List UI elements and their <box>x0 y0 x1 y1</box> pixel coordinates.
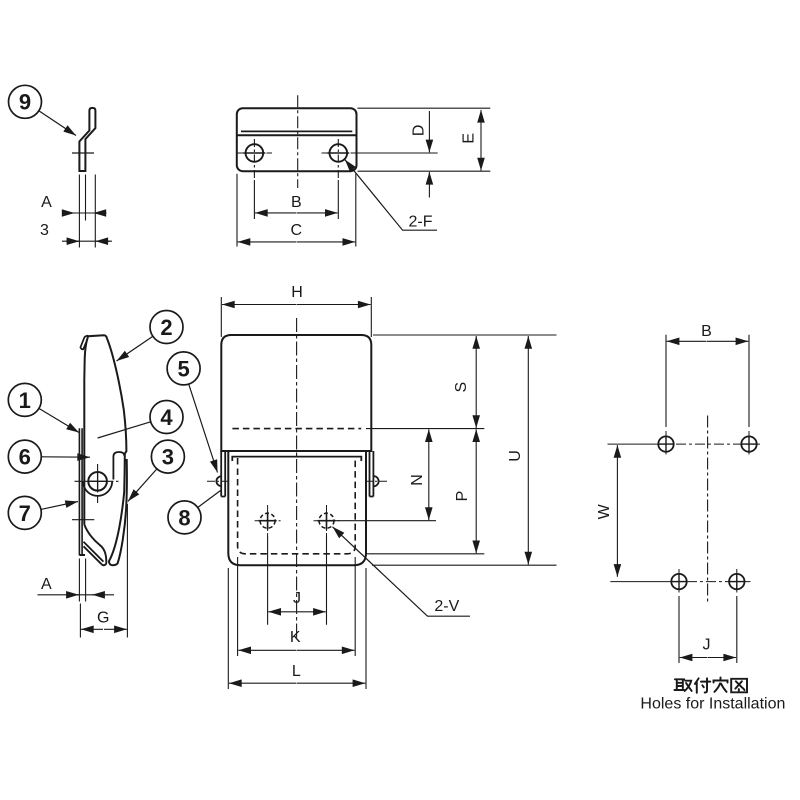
svg-text:W: W <box>596 503 613 519</box>
svg-text:N: N <box>409 474 426 486</box>
svg-text:8: 8 <box>178 505 190 530</box>
svg-text:H: H <box>291 284 303 301</box>
svg-text:L: L <box>292 663 301 680</box>
svg-text:6: 6 <box>19 445 31 470</box>
svg-text:G: G <box>97 609 109 626</box>
svg-text:4: 4 <box>160 405 173 430</box>
svg-text:9: 9 <box>19 90 31 115</box>
svg-text:1: 1 <box>19 388 31 413</box>
svg-text:E: E <box>460 133 477 144</box>
svg-text:2-V: 2-V <box>434 598 459 615</box>
svg-text:C: C <box>291 222 303 239</box>
svg-text:D: D <box>411 125 428 137</box>
svg-text:U: U <box>507 450 524 462</box>
svg-text:J: J <box>703 637 711 654</box>
svg-text:B: B <box>291 194 302 211</box>
svg-text:Holes for Installation: Holes for Installation <box>640 695 785 712</box>
svg-text:2-F: 2-F <box>409 214 433 231</box>
svg-text:A: A <box>41 576 52 593</box>
svg-text:J: J <box>293 590 301 607</box>
svg-text:7: 7 <box>19 501 31 526</box>
svg-text:3: 3 <box>40 222 49 239</box>
svg-text:5: 5 <box>177 356 189 381</box>
svg-text:3: 3 <box>162 445 174 470</box>
svg-text:2: 2 <box>160 315 172 340</box>
svg-text:K: K <box>290 629 301 646</box>
svg-text:B: B <box>701 323 712 340</box>
svg-text:A: A <box>41 194 52 211</box>
svg-text:S: S <box>453 382 470 393</box>
svg-text:P: P <box>454 491 471 502</box>
